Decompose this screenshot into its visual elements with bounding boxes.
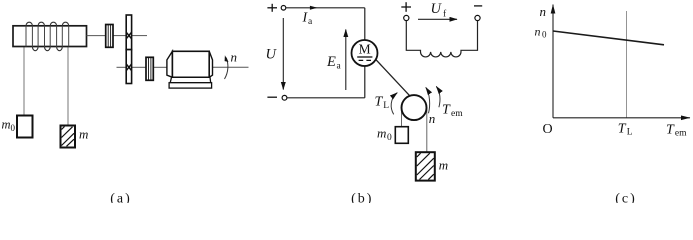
svg-text:T: T xyxy=(442,103,451,118)
svg-text:0: 0 xyxy=(11,123,16,133)
svg-text:n: n xyxy=(535,25,541,39)
svg-text:m: m xyxy=(2,118,11,132)
svg-text:L: L xyxy=(383,101,389,111)
svg-text:T: T xyxy=(666,123,675,138)
svg-text:T: T xyxy=(375,95,384,110)
svg-text:0: 0 xyxy=(542,30,547,40)
svg-text:em: em xyxy=(451,109,463,119)
svg-text:(a): (a) xyxy=(110,192,132,204)
svg-text:U: U xyxy=(266,47,278,63)
svg-text:m: m xyxy=(377,126,386,141)
svg-text:(b): (b) xyxy=(351,192,373,204)
svg-text:f: f xyxy=(443,9,447,20)
svg-text:a: a xyxy=(308,17,313,27)
svg-text:n: n xyxy=(540,4,547,19)
svg-text:O: O xyxy=(542,122,552,137)
svg-text:n: n xyxy=(429,111,436,126)
svg-text:em: em xyxy=(675,129,687,139)
svg-text:m: m xyxy=(79,127,88,142)
svg-text:E: E xyxy=(326,54,336,70)
svg-text:M: M xyxy=(359,42,371,57)
svg-text:n: n xyxy=(231,50,238,65)
svg-text:0: 0 xyxy=(387,133,392,143)
svg-text:L: L xyxy=(627,127,633,137)
svg-text:(c): (c) xyxy=(615,192,637,204)
svg-text:U: U xyxy=(431,1,443,17)
svg-text:T: T xyxy=(618,121,627,136)
svg-text:m: m xyxy=(439,158,448,173)
svg-text:a: a xyxy=(337,62,342,72)
